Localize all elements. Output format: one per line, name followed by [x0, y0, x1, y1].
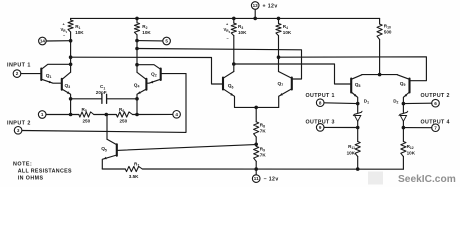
svg-text:− 12v: − 12v [264, 177, 279, 183]
svg-text:OUTPUT 1: OUTPUT 1 [306, 93, 335, 99]
svg-text:10K: 10K [142, 30, 151, 35]
svg-text:2: 2 [16, 71, 19, 76]
svg-text:5: 5 [165, 39, 168, 44]
svg-text:3.5K: 3.5K [129, 174, 139, 179]
svg-text:8: 8 [319, 100, 322, 105]
svg-text:3: 3 [17, 128, 20, 133]
svg-text:7K: 7K [260, 128, 267, 133]
svg-text:SeekIC.com: SeekIC.com [398, 174, 456, 185]
svg-text:500: 500 [384, 30, 392, 35]
svg-text:6: 6 [434, 101, 437, 106]
svg-text:20pF: 20pF [96, 90, 107, 95]
svg-text:10K: 10K [238, 30, 247, 35]
svg-text:10K: 10K [283, 30, 292, 35]
svg-text:+ 12v: + 12v [263, 4, 278, 10]
svg-text:1: 1 [41, 112, 44, 117]
svg-text:250: 250 [83, 119, 91, 124]
svg-text:INPUT 1: INPUT 1 [7, 63, 31, 69]
svg-text:10K: 10K [75, 30, 84, 35]
svg-text:IN OHMS: IN OHMS [18, 176, 44, 182]
svg-text:9: 9 [319, 125, 322, 130]
svg-text:ALL RESISTANCES: ALL RESISTANCES [18, 169, 72, 175]
svg-text:7K: 7K [260, 153, 267, 158]
svg-text:13: 13 [253, 3, 259, 8]
svg-text:250: 250 [120, 119, 128, 124]
svg-text:INPUT 2: INPUT 2 [7, 120, 31, 126]
svg-text:14: 14 [40, 39, 46, 44]
svg-text:11: 11 [254, 176, 259, 181]
svg-text:7: 7 [434, 125, 437, 130]
svg-text:OUTPUT 2: OUTPUT 2 [421, 93, 450, 99]
svg-text:10K: 10K [407, 150, 416, 155]
svg-text:NOTE:: NOTE: [13, 162, 32, 168]
svg-text:4: 4 [175, 112, 178, 117]
svg-text:10K: 10K [347, 150, 356, 155]
